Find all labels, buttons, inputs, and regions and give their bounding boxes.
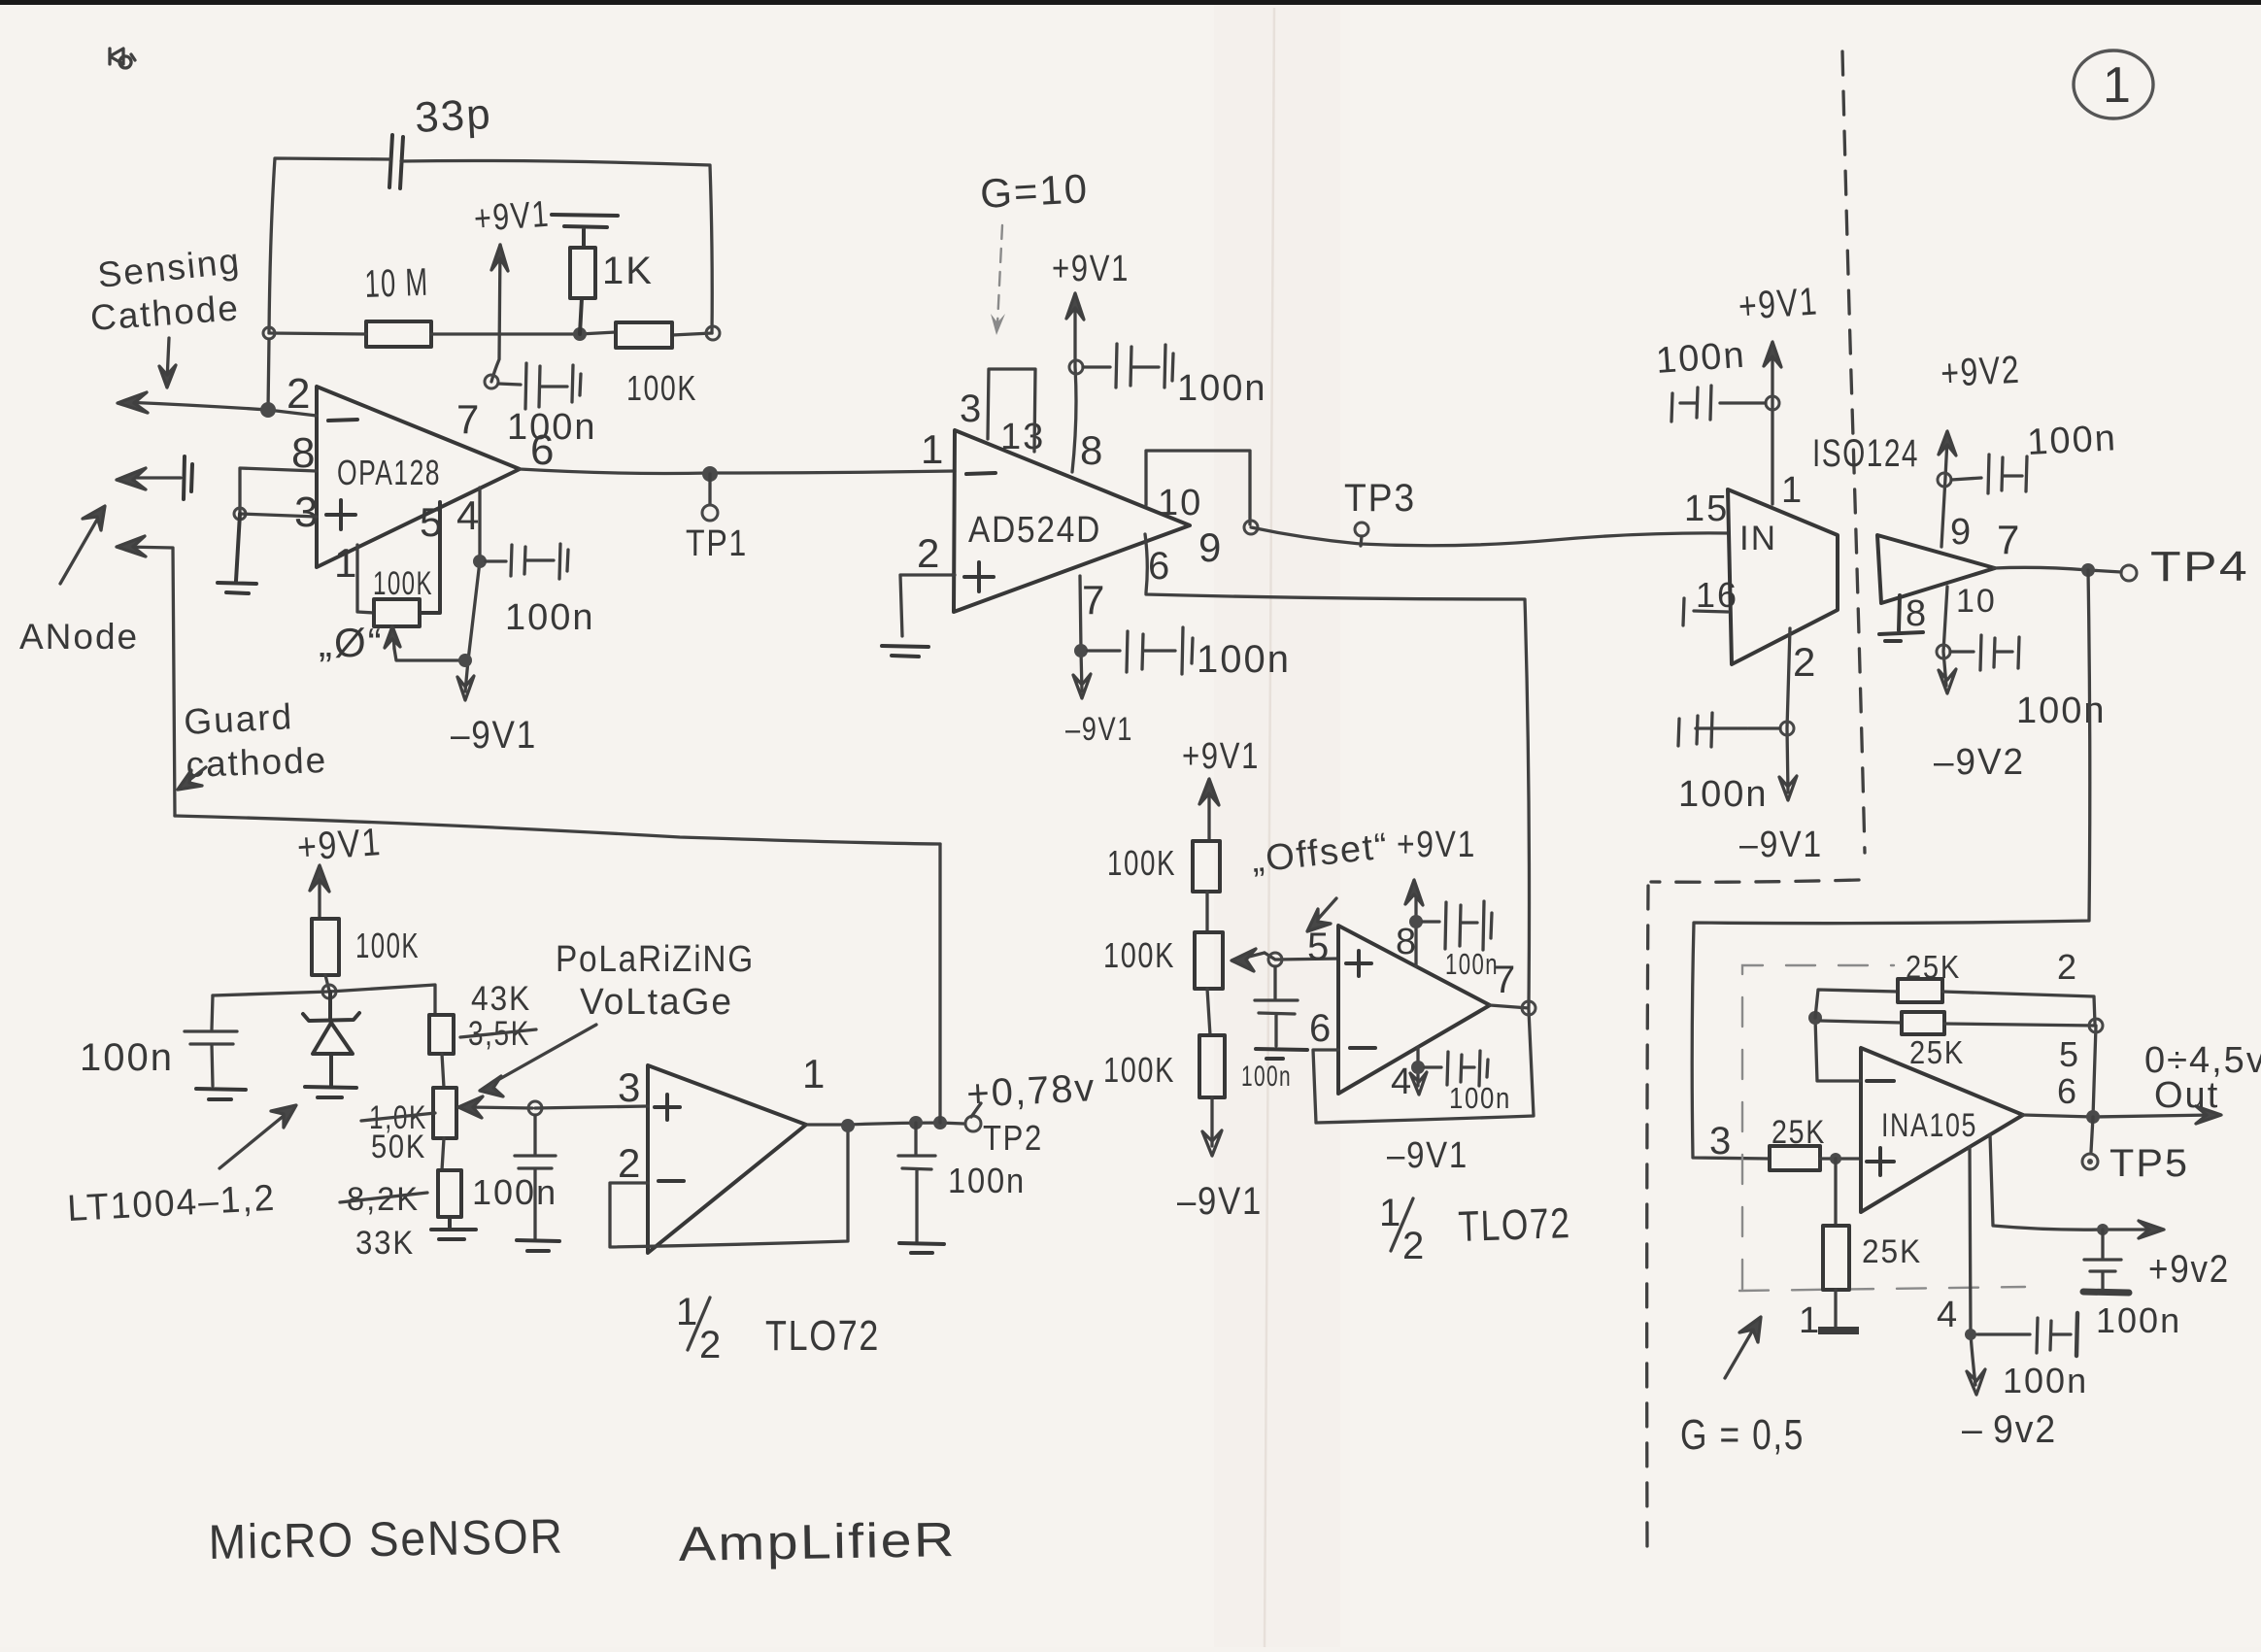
node wiper join [458, 654, 472, 667]
svg-text:5: 5 [2059, 1034, 2080, 1074]
test point TP2 [965, 1116, 981, 1131]
svg-text:3: 3 [1709, 1120, 1733, 1163]
svg-text:100K: 100K [1107, 843, 1176, 883]
ground offset cap [1256, 1049, 1307, 1059]
node AD pin8 [1069, 360, 1083, 374]
svg-text:+9V1: +9V1 [473, 194, 552, 240]
svg-text:TP3: TP3 [1344, 477, 1416, 520]
arrow pin4 down [1410, 1072, 1427, 1095]
resistor 100K feedback [616, 322, 672, 348]
svg-text:4: 4 [1937, 1295, 1959, 1335]
svg-text:–9V1: –9V1 [1065, 711, 1133, 748]
node +input junction [1830, 1153, 1841, 1164]
capacitor 33p [389, 135, 403, 188]
node pot wiper [528, 1101, 542, 1115]
svg-text:TP1: TP1 [686, 523, 748, 564]
arrow LT1004 pointer [219, 1105, 296, 1168]
svg-text:100K: 100K [1103, 1050, 1175, 1090]
svg-text:100n: 100n [472, 1172, 557, 1212]
node feedback [841, 1119, 855, 1132]
wire 100K to zener node [325, 975, 329, 991]
wire node to cap left [213, 992, 329, 995]
svg-text:100n: 100n [80, 1036, 174, 1079]
svg-text:G = 0,5: G = 0,5 [1680, 1411, 1805, 1459]
svg-text:6: 6 [530, 426, 556, 474]
wiper arrow 50K pot [458, 1096, 532, 1118]
svg-text:1: 1 [1781, 470, 1804, 511]
label 1/2 TL072 buffer [676, 1291, 723, 1366]
anode coupling arrow and cap [117, 468, 181, 489]
svg-text:10: 10 [1158, 483, 1202, 523]
gain jumper box pins 3-13 [988, 369, 1035, 452]
svg-text:1: 1 [921, 426, 945, 472]
node pin4 [1411, 1061, 1425, 1074]
svg-text:100K: 100K [373, 565, 433, 602]
svg-text:6: 6 [1309, 1007, 1333, 1050]
arrow G=0,5 pointer [1725, 1317, 1761, 1378]
ground AD pin2 [882, 646, 928, 657]
svg-text:TP5: TP5 [2109, 1142, 2189, 1185]
wire feedback top right [401, 161, 712, 334]
resistor 1K [570, 248, 595, 334]
svg-text:9: 9 [1198, 524, 1223, 570]
svg-text:2: 2 [2057, 947, 2078, 987]
capacitor 100n TL072 pin8 [1423, 901, 1492, 950]
isolation barrier dashed line [1647, 51, 1865, 1548]
svg-text:VoLtaGe: VoLtaGe [580, 982, 733, 1023]
svg-text:AmpLifieR: AmpLifieR [678, 1512, 957, 1571]
wire ISO pin10 [1943, 587, 1947, 686]
power +9V1 arrow offset divider [1199, 779, 1219, 841]
resistor 25K ground leg [1823, 1226, 1849, 1290]
svg-text:–9V2: –9V2 [1934, 742, 2025, 783]
resistor 10M [366, 321, 431, 347]
resistor 43K [429, 1015, 454, 1054]
wire INA output [2023, 1106, 2221, 1124]
svg-text:– 9v2: – 9v2 [1962, 1408, 2057, 1451]
svg-text:2: 2 [287, 370, 312, 418]
svg-text:33K: 33K [355, 1225, 415, 1262]
node feedback right [706, 326, 720, 340]
svg-text:G=10: G=10 [979, 165, 1090, 217]
potentiometer 50K [433, 1088, 456, 1138]
ground 33K [431, 1217, 476, 1239]
wire AD output to ISO124 [1251, 527, 1728, 546]
plus sign TL072 buffer [655, 1095, 680, 1120]
capacitor 100n wiper [515, 1115, 556, 1238]
node zener [322, 985, 336, 998]
wire INA pin4 [1970, 1147, 1975, 1385]
capacitor 100n INA pin4 [1977, 1313, 2077, 1356]
svg-text:+9V1: +9V1 [1738, 280, 1820, 328]
node pin4 [473, 555, 487, 568]
minus sign TL072 offset [1350, 1046, 1375, 1050]
wire ISO pin16 stub [1683, 598, 1728, 625]
wire ISO pin8 ground bar [1879, 595, 1923, 641]
op-amp OPA128 [317, 387, 520, 567]
node INA output [2086, 1110, 2100, 1124]
svg-text:cathode: cathode [186, 740, 328, 785]
capacitor 100n ISO pin2 [1678, 713, 1780, 747]
arrow anode pointer [60, 506, 105, 584]
wire ISO pin1 +9V1 [1764, 342, 1781, 504]
arrow -9V1 OPA [457, 676, 474, 700]
node riser [933, 1116, 947, 1129]
wire guard trace [175, 816, 940, 844]
svg-text:–9V1: –9V1 [1739, 825, 1823, 865]
page number circle 1 [2074, 51, 2153, 118]
svg-text:100n: 100n [1449, 1081, 1511, 1115]
iso-amp ISO124 input half [1728, 489, 1838, 664]
arrow guard pointer [178, 767, 206, 790]
svg-text:AD524D: AD524D [968, 510, 1101, 551]
node ISO pin10 [1937, 645, 1950, 658]
arrow -9V1 AD [1073, 674, 1091, 698]
wire ISO pin2 [1787, 628, 1790, 792]
svg-text:6: 6 [2057, 1071, 2078, 1111]
svg-text:13: 13 [1000, 417, 1045, 457]
wire feedback row [269, 332, 712, 335]
resistor 100K polarizing top [312, 919, 339, 975]
node feedback junction [1808, 1011, 1822, 1025]
wire AD pin7 [1080, 576, 1082, 691]
wire TL072 offset feedback loop [1313, 1010, 1534, 1123]
wire TL072 offset pin8 +9V1 [1405, 880, 1423, 966]
svg-text:PoLaRiZiNG: PoLaRiZiNG [556, 939, 755, 980]
node AD pin7 [1074, 644, 1088, 657]
wire AD pin6 to offset amp output [1145, 534, 1530, 1006]
svg-text:+9V1: +9V1 [1182, 736, 1260, 777]
svg-text:100n: 100n [1655, 335, 1747, 382]
wire TL072 buffer output [806, 1123, 964, 1125]
capacitor 100n ISO pin1 [1671, 386, 1766, 421]
in-amp AD524D [954, 430, 1190, 612]
node TP4 [2081, 563, 2095, 577]
node 1K junction [573, 327, 587, 341]
wire TL072 offset pin4 -9V1 [1416, 1047, 1419, 1086]
svg-text:+9v2: +9v2 [2148, 1248, 2230, 1291]
svg-text:100n: 100n [2016, 691, 2107, 731]
potentiometer 100K offset trim [374, 502, 440, 626]
wire pin1 to pot [357, 545, 374, 613]
node TL072 offset output [1522, 1001, 1535, 1015]
svg-text:33p: 33p [414, 90, 493, 142]
node ISO pin9 [1938, 473, 1951, 487]
wire anode lower arrow to guard [117, 536, 175, 816]
pin 10 jumper box [1146, 451, 1250, 524]
wire feedback top branch [1815, 990, 1898, 1018]
node INA pin4 [1965, 1329, 1976, 1340]
wire riser to guard trace [938, 844, 941, 1123]
svg-text:100n: 100n [1197, 638, 1291, 681]
op-amp TL072 offset [1338, 926, 1490, 1094]
wire to -9V1 offset [1210, 1097, 1213, 1146]
arrow polarizing pointer [480, 1025, 596, 1096]
svg-text:50K: 50K [371, 1129, 426, 1165]
wire ISO pin9 +9V2 [1939, 431, 1956, 547]
ground pin3 [218, 514, 256, 593]
svg-text:100K: 100K [355, 926, 420, 965]
wire OPA output to AD524D [520, 469, 955, 474]
wire 43K to pot [442, 1054, 444, 1088]
svg-text:3: 3 [960, 388, 983, 430]
svg-text:7: 7 [456, 396, 481, 442]
resistor 25K feedback lower [1902, 1012, 1944, 1034]
arrow -9V1 ISO [1779, 776, 1797, 800]
paper fold line [1265, 8, 1274, 1647]
svg-text:+9V2: +9V2 [1940, 349, 2021, 395]
page mark D1 glyph top-left [110, 49, 135, 68]
svg-text:„Ø“: „Ø“ [319, 620, 384, 665]
svg-text:100n: 100n [1177, 368, 1267, 409]
svg-text:+9V1: +9V1 [1397, 825, 1476, 865]
svg-text:2: 2 [618, 1140, 642, 1186]
node pin5 [2089, 1019, 2103, 1032]
ground polarizing cap [196, 1089, 246, 1099]
wire pin4 to -9V1 [465, 488, 480, 691]
arrow -9V2 ISO [1939, 669, 1956, 693]
ground TP2 cap [899, 1243, 944, 1253]
wire pin 3 stub [240, 514, 317, 517]
svg-text:25K: 25K [1909, 1034, 1965, 1070]
plus sign AD pin2 [964, 562, 994, 591]
wire node to 43K [329, 985, 435, 1015]
wire TP4 node to INA105 input [1692, 570, 2090, 1159]
svg-text:5: 5 [1307, 926, 1331, 968]
node AD output [1244, 521, 1258, 534]
svg-text:3: 3 [618, 1064, 642, 1110]
svg-text:4: 4 [456, 492, 481, 538]
node ISO pin2 [1780, 722, 1794, 735]
capacitor 100n polarizing [185, 995, 237, 1086]
power +9V1 arrow polarizing [310, 865, 329, 919]
svg-text:100n: 100n [1445, 947, 1499, 981]
minus sign pin2 [328, 420, 357, 421]
arrow sensing cathode pointer [159, 338, 176, 388]
node +9V2 [2097, 1224, 2109, 1235]
test point TP1 [708, 474, 711, 504]
svg-text:1: 1 [802, 1051, 827, 1096]
node feedback left [263, 327, 275, 339]
minus sign INA [1867, 1079, 1894, 1083]
minus sign TL072 buffer [658, 1179, 684, 1183]
svg-text:IN: IN [1739, 520, 1777, 557]
svg-text:7: 7 [1997, 517, 2021, 562]
svg-text:25K: 25K [1862, 1233, 1922, 1270]
svg-text:8: 8 [1080, 427, 1104, 473]
node pin2 [260, 402, 276, 418]
ground zener [305, 1087, 356, 1097]
wire feedback to pin2 [268, 339, 269, 410]
svg-text:Out: Out [2154, 1075, 2219, 1116]
resistor 100K offset bottom [1207, 989, 1210, 1035]
wiper arrow offset pot [1232, 949, 1338, 971]
plus sign INA [1867, 1148, 1894, 1175]
svg-text:MicRO SeNSOR: MicRO SeNSOR [208, 1509, 564, 1569]
svg-text:100n: 100n [2026, 418, 2118, 463]
node ISO pin1 [1766, 396, 1779, 410]
svg-text:–9V1: –9V1 [1177, 1180, 1263, 1223]
wire lower feedback to pin5 [1944, 1024, 2096, 1117]
wire pin 8 stub [240, 468, 317, 513]
wire feedback top to pin2 [1942, 992, 2095, 1024]
minus sign AD pin1 [966, 473, 996, 474]
svg-text:+9V1: +9V1 [296, 821, 384, 869]
wire 25K to +input [1820, 1157, 1861, 1160]
scan edge top [0, 0, 2261, 5]
capacitor 100n TL072 pin4 [1425, 1051, 1488, 1086]
wire sensing cathode to pin2 [118, 392, 317, 416]
capacitor 100n OPA pin7 [498, 363, 581, 409]
svg-text:10 M: 10 M [364, 261, 429, 306]
test point TP5 [2091, 1117, 2093, 1152]
arrow offset pointer [1307, 898, 1336, 931]
svg-text:5: 5 [420, 499, 444, 545]
svg-text:7: 7 [1082, 577, 1106, 623]
wire ISO output to TP4 [1994, 567, 2121, 572]
svg-text:100n: 100n [2003, 1361, 2088, 1400]
potentiometer 100K offset [1195, 932, 1223, 989]
svg-text:TP2: TP2 [983, 1118, 1043, 1158]
capacitor 100n OPA pin4 [486, 544, 568, 579]
capacitor 100n ISO pin9 [1951, 455, 2027, 493]
svg-text:100K: 100K [1103, 935, 1175, 975]
node pin8 [1409, 915, 1423, 928]
wire wiper to +input [535, 1106, 648, 1108]
svg-text:8: 8 [1906, 593, 1928, 634]
svg-text:3: 3 [294, 489, 320, 536]
wire to ground pin1 [1834, 1290, 1837, 1329]
resistor 25K feedback top [1898, 979, 1942, 1002]
wire TL072 buffer feedback loop [610, 1127, 848, 1247]
svg-text:Guard: Guard [183, 696, 294, 742]
svg-text:16: 16 [1696, 575, 1738, 615]
zener diode LT1004-1,2 [303, 992, 359, 1086]
node TP1 junction [702, 466, 718, 482]
node output cap [909, 1116, 923, 1129]
capacitor 100n INA V+ [2083, 1230, 2129, 1293]
iso-amp ISO124 output half [1877, 535, 1995, 603]
arrow -9V2 INA [1967, 1369, 1985, 1395]
svg-text:2: 2 [1793, 639, 1817, 685]
svg-text:ANode: ANode [19, 617, 139, 657]
wire feedback top left [269, 158, 389, 333]
resistor 25K input [1770, 1146, 1820, 1170]
svg-text:43K: 43K [471, 980, 531, 1018]
wire INA minus input [1815, 1018, 1861, 1081]
ground INA pin1 [1818, 1327, 1859, 1334]
svg-text:ISO124: ISO124 [1812, 432, 1919, 475]
wire INA V+ pin to +9V2 [1990, 1134, 2164, 1238]
trim wiper arrow [385, 626, 460, 660]
svg-text:6: 6 [1148, 545, 1171, 588]
capacitor 100n AD pin8 [1083, 344, 1173, 388]
svg-text:TLO72: TLO72 [765, 1312, 880, 1360]
difference amp INA105 [1861, 1048, 2023, 1212]
wire +input to 25K ground leg [1834, 1159, 1837, 1226]
wire TL072 offset output [1490, 1005, 1529, 1008]
svg-text:2: 2 [1402, 1225, 1426, 1267]
svg-text:15: 15 [1684, 489, 1729, 529]
svg-text:100n: 100n [948, 1161, 1026, 1200]
svg-text:25K: 25K [1772, 1114, 1826, 1151]
plus sign TL072 offset [1346, 951, 1371, 976]
svg-text:9: 9 [1950, 512, 1973, 553]
svg-text:TLO72: TLO72 [1458, 1199, 1572, 1251]
node pin3 junction [234, 508, 246, 520]
svg-text:100n: 100n [1241, 1061, 1292, 1093]
dashed box around INA105 [1739, 965, 2025, 1291]
svg-text:100K: 100K [626, 368, 697, 408]
ground above 1K [552, 215, 618, 248]
svg-text:1: 1 [2103, 57, 2133, 114]
svg-text:1: 1 [1799, 1300, 1821, 1341]
svg-text:+0,78v: +0,78v [965, 1066, 1097, 1116]
arrow G=10 dashed pointer [991, 225, 1005, 335]
resistor 8,2K/33K [442, 1138, 444, 1170]
test point TP4 [2121, 565, 2137, 581]
svg-text:100n: 100n [1678, 774, 1769, 815]
svg-text:100n: 100n [505, 597, 595, 638]
node pin7 [485, 375, 498, 388]
svg-text:TP4: TP4 [2150, 543, 2249, 590]
label 1/2 TL072 offset [1379, 1192, 1426, 1267]
capacitor 100n ISO pin10 [1950, 635, 2019, 670]
wire feedback lower branch [1821, 1021, 1902, 1023]
wire AD pin2 ground stub [900, 575, 955, 636]
svg-text:–9V1: –9V1 [451, 714, 537, 757]
svg-text:–9V1: –9V1 [1387, 1135, 1468, 1176]
svg-text:INA105: INA105 [1881, 1107, 1977, 1144]
svg-text:4: 4 [1391, 1062, 1413, 1102]
plus sign pin3 [326, 500, 355, 529]
svg-text:OPA128: OPA128 [337, 453, 441, 492]
svg-text:100n: 100n [2096, 1300, 2181, 1340]
svg-text:25K: 25K [1906, 949, 1961, 985]
resistor 100K offset top [1193, 841, 1220, 892]
svg-text:2: 2 [699, 1324, 723, 1366]
svg-text:2: 2 [917, 530, 941, 576]
op-amp TL072 polarizing buffer [648, 1065, 806, 1253]
capacitor 100n AD pin7 [1088, 627, 1193, 674]
svg-text:1K: 1K [602, 250, 654, 292]
capacitor 100n TP2 [898, 1123, 935, 1241]
capacitor 100n offset node [1255, 966, 1298, 1046]
svg-text:+9V1: +9V1 [1052, 249, 1130, 289]
node offset wiper [1268, 953, 1282, 966]
wire 100K to pot [1205, 892, 1208, 932]
svg-text:1: 1 [334, 540, 358, 586]
svg-text:10: 10 [1956, 583, 1997, 620]
ground wiper cap [517, 1240, 559, 1251]
arrow -9V1 offset [1202, 1130, 1222, 1156]
